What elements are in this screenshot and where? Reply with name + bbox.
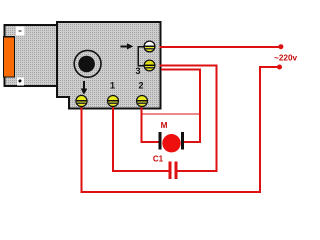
svg-text:C1: C1 (153, 154, 164, 163)
terminal screw 3a (144, 41, 155, 52)
trigger housing block (5, 25, 59, 86)
svg-text:1: 1 (110, 81, 115, 91)
spindle black dot (78, 56, 95, 73)
terminal screw arrow (common) (76, 95, 87, 106)
supply dot bottom (277, 65, 282, 70)
wire supply bottom to arrow screw (82, 67, 280, 192)
terminal screw 3b (144, 60, 155, 71)
wire screw1 to capacitor left (113, 104, 169, 171)
motor M body (162, 134, 180, 152)
capacitor C1 plate left (168, 162, 171, 180)
arrow down (81, 81, 87, 95)
terminal screw 2 (137, 96, 148, 107)
motor brush bar right (181, 132, 184, 149)
wire screw2 to motor left (142, 104, 160, 142)
capacitor C1 plate right (174, 162, 177, 180)
svg-text:3: 3 (135, 66, 140, 76)
svg-text:M: M (161, 121, 168, 130)
motor brush bar left (159, 132, 162, 149)
bridge wire (142, 113, 200, 115)
wire B: to motor right (161, 70, 200, 143)
terminal screw 1 (108, 96, 119, 107)
bracket for 3 terminals (138, 47, 144, 66)
screw window bottom (dot mark) (17, 77, 24, 85)
switch main body (57, 22, 161, 109)
svg-text:~220v: ~220v (274, 54, 297, 63)
spindle ring (74, 50, 101, 77)
supply dot top (278, 44, 283, 49)
wire A: 3b to capacitor right (160, 65, 217, 171)
trigger button (orange) (4, 37, 15, 77)
svg-text:2: 2 (138, 81, 143, 91)
arrow right (121, 43, 134, 49)
screw window top (minus mark) (16, 27, 25, 36)
wire from terminal 3a to supply (160, 46, 282, 48)
